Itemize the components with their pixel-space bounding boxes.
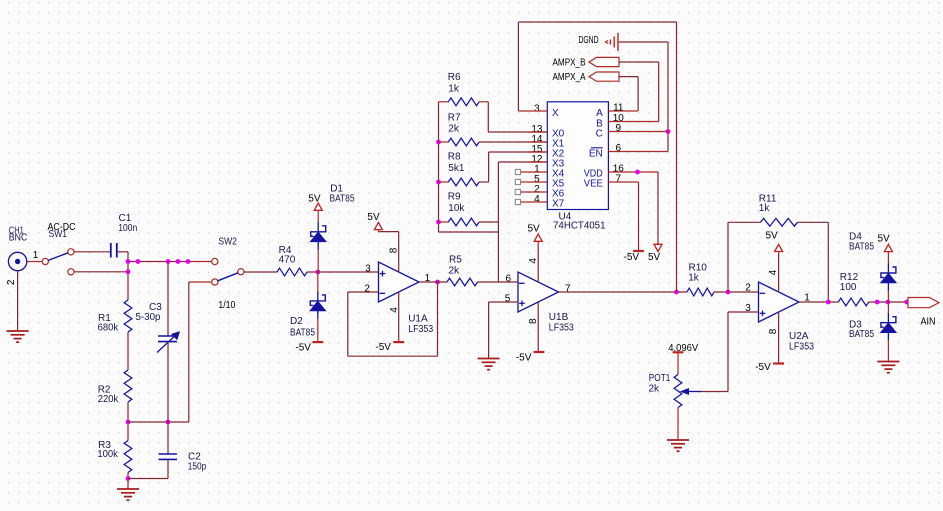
op-amp U2A LF353 bbox=[759, 282, 800, 322]
svg-text:2k: 2k bbox=[649, 384, 661, 395]
power -5V below U1A bbox=[398, 292, 400, 342]
svg-text:100k: 100k bbox=[97, 449, 118, 460]
power -5V below U1B bbox=[537, 302, 539, 352]
svg-text:2k: 2k bbox=[448, 124, 460, 135]
svg-text:1k: 1k bbox=[759, 203, 771, 214]
ground below BNC bbox=[7, 330, 29, 332]
ground below R3 bbox=[117, 488, 139, 490]
connector CH1 BNC bbox=[8, 252, 26, 270]
svg-text:150p: 150p bbox=[188, 462, 207, 473]
svg-text:X7: X7 bbox=[552, 199, 565, 210]
wire U1B pin5 to ground bbox=[489, 301, 518, 303]
svg-text:10k: 10k bbox=[448, 203, 465, 214]
svg-text:8: 8 bbox=[528, 318, 539, 324]
mux no-connect stub X6 bbox=[521, 191, 548, 193]
svg-text:-5V: -5V bbox=[516, 353, 532, 364]
svg-text:3: 3 bbox=[534, 103, 540, 114]
junction bus R7 bbox=[436, 140, 441, 145]
svg-text:5V: 5V bbox=[766, 231, 779, 242]
junction clamp column bbox=[886, 300, 891, 305]
mux no-connect stub X5 bbox=[521, 181, 548, 183]
wire SW1 DC throw to node A bbox=[74, 271, 128, 273]
svg-text:1/10: 1/10 bbox=[218, 300, 235, 311]
junction divider tap bbox=[126, 420, 131, 425]
svg-text:4: 4 bbox=[768, 269, 779, 275]
svg-text:5: 5 bbox=[505, 293, 511, 304]
op-amp U1B LF353 bbox=[518, 272, 559, 312]
op-amp U1A LF353 bbox=[379, 262, 420, 302]
junction U1B output / X loop bbox=[674, 290, 679, 295]
wire R3 to ground bbox=[127, 473, 129, 490]
svg-text:11: 11 bbox=[613, 102, 624, 113]
junction U1A output bbox=[435, 280, 440, 285]
power -5V below mux bbox=[633, 250, 644, 252]
wire AMPX_A to mux A bbox=[619, 76, 638, 78]
svg-text:R9: R9 bbox=[448, 192, 461, 203]
svg-text:2: 2 bbox=[364, 283, 370, 294]
svg-text:470: 470 bbox=[279, 255, 296, 266]
wire R6 to mux X0 bbox=[487, 102, 489, 132]
wire DGND to mux C and EN bbox=[619, 41, 668, 43]
wire mux pin EN stub bbox=[608, 151, 668, 153]
wire SW2 lower throw bbox=[189, 281, 212, 283]
wire BNC pin2 down to ground bbox=[17, 271, 19, 331]
wire feedback bus vertical bbox=[438, 102, 440, 232]
svg-text:6: 6 bbox=[616, 143, 622, 154]
svg-text:7: 7 bbox=[565, 283, 571, 294]
svg-text:X: X bbox=[552, 108, 559, 119]
wire mux pin C stub bbox=[608, 131, 668, 133]
junction C3/C2 column at tap row bbox=[166, 420, 171, 425]
svg-text:SW2: SW2 bbox=[218, 237, 237, 248]
junction on VDD wire bbox=[635, 170, 640, 175]
wire clamp node to U1A pin3 bbox=[318, 271, 379, 273]
mux pin stubs left overdraw bbox=[527, 131, 547, 133]
svg-text:5V: 5V bbox=[648, 252, 661, 263]
svg-text:5k1: 5k1 bbox=[448, 163, 465, 174]
svg-text:5V: 5V bbox=[367, 212, 380, 223]
svg-text:6: 6 bbox=[506, 274, 512, 285]
svg-text:8: 8 bbox=[389, 247, 400, 253]
wire R5 to U1B pin6 bbox=[478, 281, 519, 283]
mux no-connect stub X4 bbox=[521, 171, 548, 173]
wire U2A pin3 to POT1 wiper bbox=[728, 311, 759, 313]
svg-text:5V: 5V bbox=[878, 233, 891, 244]
junction R3 bottom / C2 return bbox=[126, 476, 131, 481]
svg-text:BAT85: BAT85 bbox=[330, 194, 355, 205]
ground below U1B pin5 bbox=[478, 358, 500, 360]
mux pin X stub bbox=[518, 110, 547, 112]
ground below D3 bbox=[877, 361, 899, 363]
svg-text:100: 100 bbox=[840, 282, 857, 293]
svg-text:5-30p: 5-30p bbox=[136, 312, 161, 323]
junction DGND / pin C bbox=[666, 129, 671, 134]
wire node A horizontal run bbox=[128, 261, 188, 263]
svg-text:-5V: -5V bbox=[624, 252, 640, 263]
power -5V below D2 bbox=[312, 341, 323, 343]
svg-text:4: 4 bbox=[534, 194, 540, 205]
svg-text:U1A: U1A bbox=[408, 314, 428, 325]
power 5V below mux bbox=[654, 244, 662, 251]
junction dots on node A row bbox=[126, 259, 131, 264]
svg-text:2: 2 bbox=[6, 279, 17, 285]
wire bus bottom to U1B pin6 node bbox=[439, 231, 499, 233]
svg-text:R8: R8 bbox=[448, 152, 461, 163]
wire U1A feedback loop bbox=[348, 291, 379, 293]
wire U2A output bbox=[799, 301, 838, 303]
junction node A / DC path bbox=[126, 269, 131, 274]
svg-text:R6: R6 bbox=[448, 72, 461, 83]
svg-text:2: 2 bbox=[745, 283, 751, 294]
wire POT1 to ground bbox=[677, 408, 679, 441]
junction bus R9 bbox=[436, 220, 441, 225]
junction after R12 bbox=[875, 300, 880, 305]
wire BNC pin1 to SW1 bbox=[27, 261, 42, 263]
port AIN bbox=[908, 298, 939, 308]
junction bus R8 bbox=[436, 180, 441, 185]
svg-text:4: 4 bbox=[528, 258, 539, 264]
svg-text:BNC: BNC bbox=[9, 233, 28, 244]
svg-text:LF353: LF353 bbox=[789, 342, 814, 353]
svg-text:7: 7 bbox=[616, 173, 622, 184]
wire C2 return row bbox=[128, 478, 168, 480]
svg-text:EN: EN bbox=[589, 149, 603, 160]
svg-text:D2: D2 bbox=[290, 316, 303, 327]
junction R10 / R11 branch bbox=[726, 290, 731, 295]
svg-text:AMPX_B: AMPX_B bbox=[553, 57, 586, 68]
wire SW2 branch vertical to tap bbox=[188, 282, 190, 422]
svg-text:C: C bbox=[596, 129, 603, 140]
wire U1A output to R5 bbox=[419, 281, 447, 283]
svg-text:R7: R7 bbox=[448, 113, 461, 124]
svg-text:5V: 5V bbox=[308, 194, 321, 205]
wire mux VDD to 5V bbox=[608, 171, 658, 173]
junction at AIN port bbox=[904, 300, 909, 305]
ground below POT1 bbox=[667, 439, 689, 441]
svg-text:SW1: SW1 bbox=[49, 229, 68, 240]
wire SW1 AC throw to C1 bbox=[74, 251, 110, 253]
svg-text:8: 8 bbox=[768, 328, 779, 334]
svg-text:VEE: VEE bbox=[584, 179, 603, 190]
svg-text:3: 3 bbox=[365, 263, 371, 274]
svg-text:2k: 2k bbox=[449, 266, 461, 277]
svg-text:U2A: U2A bbox=[789, 331, 809, 342]
svg-text:A: A bbox=[596, 108, 603, 119]
svg-text:-5V: -5V bbox=[295, 342, 311, 353]
power -5V below U2A bbox=[778, 312, 780, 363]
svg-text:AMPX_A: AMPX_A bbox=[553, 72, 586, 83]
svg-text:BAT85: BAT85 bbox=[290, 328, 315, 339]
wire R7 to mux X1 bbox=[479, 141, 547, 143]
svg-text:1k: 1k bbox=[448, 84, 460, 95]
svg-text:74HCT4051: 74HCT4051 bbox=[553, 220, 606, 231]
svg-text:1k: 1k bbox=[688, 272, 700, 283]
svg-text:680k: 680k bbox=[98, 323, 119, 334]
wire mux X to U1B output loop bbox=[517, 22, 519, 111]
wire R9 to mux X3 bbox=[479, 221, 498, 223]
junction R4 / clamp node bbox=[315, 270, 320, 275]
wire mux VEE to -5V bbox=[608, 181, 638, 183]
svg-text:BAT85: BAT85 bbox=[849, 329, 874, 340]
wire C1 to node A bbox=[118, 251, 128, 253]
wire C3 bottom to tap row bbox=[167, 342, 169, 422]
mux no-connect stub X7 bbox=[521, 201, 548, 203]
wire AMPX_B to mux B bbox=[619, 61, 659, 63]
wire tap row to SW2 branch bbox=[128, 421, 189, 423]
svg-text:AIN: AIN bbox=[921, 317, 936, 328]
wire R1 to R2 bbox=[127, 332, 129, 370]
wire U1B output bbox=[559, 291, 688, 293]
svg-text:DGND: DGND bbox=[579, 35, 599, 46]
svg-text:LF353: LF353 bbox=[549, 322, 574, 333]
svg-text:9: 9 bbox=[616, 123, 622, 134]
svg-text:R5: R5 bbox=[449, 255, 462, 266]
wire R8 to mux X2 bbox=[479, 181, 489, 183]
svg-text:BAT85: BAT85 bbox=[849, 241, 874, 252]
junction U2A output / R11 bbox=[826, 300, 831, 305]
multiplexer U4 74HCT4051 bbox=[547, 102, 608, 210]
svg-text:-5V: -5V bbox=[755, 362, 771, 373]
svg-text:LF353: LF353 bbox=[408, 324, 433, 335]
svg-text:1: 1 bbox=[33, 250, 39, 261]
wire R2 to R3 with tap bbox=[127, 402, 129, 441]
svg-text:-5V: -5V bbox=[375, 342, 391, 353]
svg-text:POT1: POT1 bbox=[649, 373, 671, 384]
svg-text:220k: 220k bbox=[98, 394, 119, 405]
svg-text:100n: 100n bbox=[118, 223, 137, 234]
